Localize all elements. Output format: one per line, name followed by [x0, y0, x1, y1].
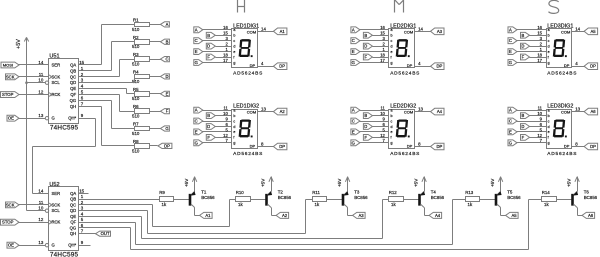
svg-text:12: 12: [537, 133, 542, 138]
svg-text:QG: QG: [70, 98, 77, 103]
svg-text:R11: R11: [312, 190, 320, 195]
svg-text:14: 14: [38, 188, 43, 193]
svg-text:QA: QA: [70, 63, 76, 68]
svg-text:G: G: [195, 60, 198, 65]
svg-text:A: A: [166, 22, 169, 27]
svg-text:A6: A6: [588, 213, 594, 218]
svg-text:E: E: [509, 49, 512, 54]
svg-text:AD5624BS: AD5624BS: [233, 151, 263, 157]
svg-text:OE: OE: [8, 243, 14, 248]
svg-text:D: D: [521, 124, 524, 129]
svg-text:+5V: +5V: [184, 178, 189, 187]
svg-text:7: 7: [81, 229, 84, 234]
svg-text:DP: DP: [407, 63, 413, 68]
svg-text:A2: A2: [280, 109, 286, 114]
svg-text:5: 5: [81, 90, 84, 95]
svg-text:G: G: [195, 140, 198, 145]
svg-text:c: c: [233, 39, 235, 43]
svg-text:1k: 1k: [544, 202, 549, 207]
svg-text:SCK: SCK: [6, 203, 15, 208]
svg-text:R6: R6: [133, 104, 139, 109]
svg-text:a: a: [391, 28, 393, 32]
svg-text:B: B: [522, 33, 525, 38]
svg-text:QH*: QH*: [68, 116, 76, 121]
svg-text:QC: QC: [70, 202, 76, 207]
svg-text:A4: A4: [435, 213, 441, 218]
svg-text:13: 13: [38, 240, 43, 245]
svg-text:13: 13: [575, 107, 580, 112]
svg-text:DP: DP: [164, 143, 170, 148]
svg-text:RCK: RCK: [52, 92, 61, 97]
svg-text:B: B: [207, 113, 210, 118]
svg-text:SCK: SCK: [52, 74, 61, 79]
svg-text:d: d: [391, 125, 393, 129]
svg-text:g: g: [391, 141, 393, 145]
svg-text:+5V: +5V: [261, 178, 266, 187]
svg-text:2: 2: [225, 42, 228, 47]
svg-text:9: 9: [225, 116, 228, 121]
svg-text:A5: A5: [590, 29, 596, 34]
svg-text:f: f: [391, 55, 392, 59]
svg-text:A5: A5: [511, 213, 517, 218]
svg-text:A: A: [195, 108, 198, 113]
svg-text:DP: DP: [250, 143, 256, 148]
svg-text:a: a: [233, 108, 235, 112]
svg-text:74HC595: 74HC595: [50, 125, 79, 132]
svg-text:R10: R10: [236, 190, 245, 195]
svg-text:T3: T3: [354, 189, 360, 194]
svg-text:17: 17: [537, 58, 542, 63]
svg-text:R13: R13: [465, 190, 474, 195]
svg-text:COM: COM: [561, 29, 570, 34]
svg-text:12: 12: [38, 217, 43, 222]
svg-text:5: 5: [81, 217, 84, 222]
svg-text:DP: DP: [250, 63, 256, 68]
svg-text:AD5624BS: AD5624BS: [547, 151, 577, 157]
svg-text:R12: R12: [389, 190, 398, 195]
svg-text:15: 15: [79, 188, 84, 193]
svg-text:510: 510: [132, 131, 140, 136]
svg-text:A3: A3: [358, 213, 364, 218]
svg-text:18: 18: [223, 52, 228, 57]
svg-text:T4: T4: [431, 189, 437, 194]
svg-text:AD5624BS: AD5624BS: [233, 71, 263, 77]
svg-text:QG: QG: [70, 225, 77, 230]
svg-text:R9: R9: [159, 190, 165, 195]
svg-text:G: G: [52, 116, 55, 121]
svg-text:15: 15: [537, 31, 542, 36]
svg-text:A3: A3: [437, 29, 443, 34]
svg-text:QA: QA: [70, 191, 76, 196]
svg-text:1k: 1k: [238, 202, 243, 207]
svg-text:F: F: [365, 135, 368, 140]
svg-text:g: g: [548, 141, 550, 145]
svg-text:g: g: [233, 141, 235, 145]
svg-text:AD5624BS: AD5624BS: [390, 71, 420, 77]
svg-text:13: 13: [261, 107, 266, 112]
svg-text:3: 3: [81, 206, 84, 211]
svg-text:11: 11: [538, 106, 543, 111]
svg-text:13: 13: [38, 113, 43, 118]
svg-text:g: g: [391, 61, 393, 65]
svg-text:4: 4: [418, 61, 421, 66]
svg-text:e: e: [548, 130, 550, 134]
svg-text:b: b: [548, 114, 550, 118]
svg-text:B: B: [166, 39, 169, 44]
svg-text:G: G: [52, 243, 55, 248]
svg-text:9: 9: [81, 240, 84, 245]
svg-text:E: E: [352, 49, 355, 54]
svg-text:2: 2: [383, 42, 386, 47]
svg-text:A: A: [509, 27, 512, 32]
svg-text:f: f: [548, 136, 549, 140]
svg-text:F: F: [522, 135, 525, 140]
svg-text:1k: 1k: [468, 202, 473, 207]
svg-text:DP: DP: [564, 63, 570, 68]
svg-text:+5V: +5V: [490, 178, 495, 187]
svg-text:C: C: [195, 38, 198, 43]
svg-text:B: B: [522, 113, 525, 118]
svg-text:AD5624BS: AD5624BS: [547, 71, 577, 77]
svg-text:e: e: [391, 50, 393, 54]
svg-text:R8: R8: [133, 139, 139, 144]
svg-text:15: 15: [380, 31, 385, 36]
svg-text:SCL: SCL: [52, 80, 61, 85]
svg-text:e: e: [548, 50, 550, 54]
svg-text:a: a: [233, 28, 235, 32]
svg-text:E: E: [352, 130, 355, 135]
svg-text:7: 7: [81, 101, 84, 106]
svg-text:9: 9: [81, 113, 84, 118]
svg-text:QF: QF: [70, 220, 76, 225]
svg-text:e: e: [233, 50, 235, 54]
svg-text:13: 13: [418, 107, 423, 112]
svg-text:BC856: BC856: [431, 195, 445, 200]
svg-text:14: 14: [418, 26, 423, 31]
svg-text:a: a: [548, 108, 550, 112]
svg-text:A: A: [352, 27, 355, 32]
svg-text:6: 6: [81, 96, 84, 101]
svg-text:COM: COM: [247, 29, 256, 34]
svg-text:QD: QD: [70, 80, 76, 85]
svg-text:R2: R2: [133, 35, 139, 40]
svg-text:f: f: [548, 55, 549, 59]
svg-text:10: 10: [380, 111, 385, 116]
svg-text:C: C: [352, 38, 355, 43]
svg-text:F: F: [207, 135, 210, 140]
svg-text:8: 8: [575, 142, 578, 147]
svg-text:16: 16: [380, 25, 385, 30]
svg-text:18: 18: [537, 52, 542, 57]
svg-text:G: G: [352, 140, 355, 145]
svg-text:G: G: [509, 140, 512, 145]
svg-text:C: C: [352, 119, 355, 124]
svg-text:e: e: [391, 130, 393, 134]
svg-text:SER: SER: [52, 191, 61, 196]
svg-text:MOSI: MOSI: [3, 63, 13, 68]
svg-text:4: 4: [81, 84, 84, 89]
svg-text:d: d: [391, 44, 393, 48]
svg-text:74HC595: 74HC595: [50, 252, 79, 257]
svg-text:QB: QB: [70, 68, 76, 73]
svg-text:1k: 1k: [315, 202, 320, 207]
svg-text:SCK: SCK: [6, 74, 15, 79]
svg-text:a: a: [548, 28, 550, 32]
svg-text:c: c: [548, 39, 550, 43]
svg-text:R1: R1: [133, 18, 139, 23]
svg-text:510: 510: [132, 62, 140, 67]
svg-text:G: G: [352, 60, 355, 65]
svg-text:R7: R7: [133, 122, 139, 127]
svg-text:c: c: [391, 39, 393, 43]
svg-text:4: 4: [575, 61, 578, 66]
svg-text:510: 510: [132, 96, 140, 101]
svg-text:E: E: [166, 91, 169, 96]
svg-text:d: d: [548, 125, 550, 129]
svg-text:12: 12: [380, 133, 385, 138]
svg-text:510: 510: [132, 79, 140, 84]
svg-text:F: F: [166, 109, 169, 114]
svg-text:510: 510: [132, 148, 140, 153]
svg-text:11: 11: [223, 106, 228, 111]
svg-text:R4: R4: [133, 70, 139, 75]
svg-text:D: D: [521, 44, 524, 49]
svg-text:DP: DP: [590, 144, 596, 149]
svg-text:COM: COM: [404, 29, 413, 34]
svg-text:A: A: [352, 108, 355, 113]
svg-text:F: F: [207, 55, 210, 60]
svg-text:b: b: [233, 114, 235, 118]
svg-text:17: 17: [380, 58, 385, 63]
svg-text:OE: OE: [8, 116, 14, 121]
svg-text:R3: R3: [133, 52, 139, 57]
svg-text:U52: U52: [49, 182, 59, 188]
svg-text:DP: DP: [564, 143, 570, 148]
svg-text:4: 4: [261, 61, 264, 66]
svg-text:AD5624BS: AD5624BS: [390, 151, 420, 157]
svg-text:10: 10: [38, 206, 43, 211]
svg-text:8: 8: [261, 142, 264, 147]
svg-text:10: 10: [38, 78, 43, 83]
svg-text:A4: A4: [437, 109, 443, 114]
svg-text:a: a: [391, 108, 393, 112]
svg-text:A: A: [195, 27, 198, 32]
svg-text:D: D: [207, 44, 210, 49]
svg-text:E: E: [195, 130, 198, 135]
svg-text:QB: QB: [70, 197, 76, 202]
svg-text:1: 1: [81, 194, 84, 199]
svg-text:+5V: +5V: [16, 39, 22, 49]
svg-text:9: 9: [383, 116, 386, 121]
svg-text:B: B: [364, 33, 367, 38]
svg-text:BC856: BC856: [584, 195, 598, 200]
svg-text:T6: T6: [584, 189, 590, 194]
svg-text:G: G: [165, 126, 168, 131]
svg-text:510: 510: [132, 44, 140, 49]
svg-text:15: 15: [223, 31, 228, 36]
svg-text:F: F: [522, 55, 525, 60]
svg-text:DP: DP: [279, 64, 285, 69]
svg-text:1k: 1k: [162, 202, 167, 207]
svg-text:STOP: STOP: [2, 92, 14, 97]
svg-text:COM: COM: [561, 110, 570, 115]
svg-text:D: D: [364, 124, 367, 129]
svg-text:E: E: [195, 49, 198, 54]
svg-text:QC: QC: [70, 74, 76, 79]
svg-text:QF: QF: [70, 92, 76, 97]
svg-text:+5V: +5V: [414, 178, 419, 187]
svg-text:c: c: [233, 119, 235, 123]
svg-text:+5V: +5V: [567, 178, 572, 187]
svg-text:12: 12: [38, 90, 43, 95]
svg-text:COM: COM: [247, 110, 256, 115]
svg-text:1k: 1k: [391, 202, 396, 207]
svg-text:d: d: [233, 44, 235, 48]
svg-text:8: 8: [418, 142, 421, 147]
svg-text:14: 14: [261, 26, 266, 31]
svg-text:f: f: [233, 136, 234, 140]
svg-text:12: 12: [223, 133, 228, 138]
svg-text:SCL: SCL: [52, 208, 61, 213]
svg-text:16: 16: [223, 25, 228, 30]
svg-text:g: g: [233, 61, 235, 65]
svg-text:SER: SER: [52, 63, 61, 68]
svg-text:SCK: SCK: [52, 202, 61, 207]
svg-text:14: 14: [575, 26, 580, 31]
svg-text:2: 2: [540, 42, 543, 47]
svg-text:b: b: [391, 114, 393, 118]
svg-text:RCK: RCK: [52, 220, 61, 225]
svg-text:T5: T5: [507, 189, 513, 194]
svg-text:d: d: [548, 44, 550, 48]
svg-text:DP: DP: [279, 144, 285, 149]
svg-text:D: D: [165, 74, 168, 79]
svg-text:QH*: QH*: [68, 243, 76, 248]
svg-text:3: 3: [81, 78, 84, 83]
svg-text:U51: U51: [49, 54, 59, 60]
svg-text:D: D: [207, 124, 210, 129]
svg-text:DP: DP: [407, 143, 413, 148]
svg-text:R14: R14: [542, 190, 551, 195]
svg-text:C: C: [509, 38, 512, 43]
svg-text:G: G: [509, 60, 512, 65]
svg-text:d: d: [233, 125, 235, 129]
svg-text:QH: QH: [70, 104, 76, 109]
svg-text:C: C: [509, 119, 512, 124]
svg-text:A6: A6: [590, 109, 596, 114]
svg-text:COM: COM: [404, 110, 413, 115]
svg-text:A1: A1: [280, 29, 286, 34]
svg-text:C: C: [165, 57, 168, 62]
svg-text:A1: A1: [205, 213, 211, 218]
svg-text:BC856: BC856: [354, 195, 368, 200]
svg-text:D: D: [364, 44, 367, 49]
svg-text:e: e: [233, 130, 235, 134]
svg-text:R5: R5: [133, 87, 139, 92]
svg-text:11: 11: [381, 106, 386, 111]
svg-text:BC856: BC856: [278, 195, 292, 200]
svg-text:f: f: [233, 55, 234, 59]
svg-text:c: c: [391, 119, 393, 123]
svg-text:QE: QE: [70, 86, 76, 91]
svg-text:DP: DP: [436, 144, 442, 149]
svg-text:g: g: [548, 61, 550, 65]
svg-text:STOP: STOP: [2, 220, 14, 225]
svg-text:B: B: [207, 33, 210, 38]
svg-text:F: F: [365, 55, 368, 60]
svg-text:16: 16: [537, 25, 542, 30]
svg-text:c: c: [548, 119, 550, 123]
svg-text:b: b: [233, 34, 235, 38]
svg-text:T1: T1: [201, 189, 207, 194]
svg-text:10: 10: [537, 111, 542, 116]
svg-text:B: B: [364, 113, 367, 118]
svg-text:QE: QE: [70, 214, 76, 219]
svg-text:b: b: [548, 34, 550, 38]
svg-text:4: 4: [81, 211, 84, 216]
svg-text:10: 10: [223, 111, 228, 116]
svg-text:BC856: BC856: [201, 195, 215, 200]
svg-text:510: 510: [132, 27, 140, 32]
svg-text:510: 510: [132, 114, 140, 119]
svg-text:OUT: OUT: [101, 231, 110, 236]
svg-text:f: f: [391, 136, 392, 140]
svg-text:b: b: [391, 34, 393, 38]
svg-text:9: 9: [540, 116, 543, 121]
svg-text:+5V: +5V: [337, 178, 342, 187]
svg-text:DP: DP: [590, 64, 596, 69]
svg-text:A2: A2: [282, 213, 288, 218]
svg-text:C: C: [195, 119, 198, 124]
svg-text:18: 18: [380, 52, 385, 57]
svg-text:T2: T2: [278, 189, 284, 194]
svg-text:17: 17: [223, 58, 228, 63]
svg-text:A: A: [509, 108, 512, 113]
svg-text:QH: QH: [70, 231, 76, 236]
svg-text:E: E: [509, 130, 512, 135]
svg-text:QD: QD: [70, 208, 76, 213]
svg-text:DP: DP: [436, 64, 442, 69]
svg-text:BC856: BC856: [507, 195, 521, 200]
